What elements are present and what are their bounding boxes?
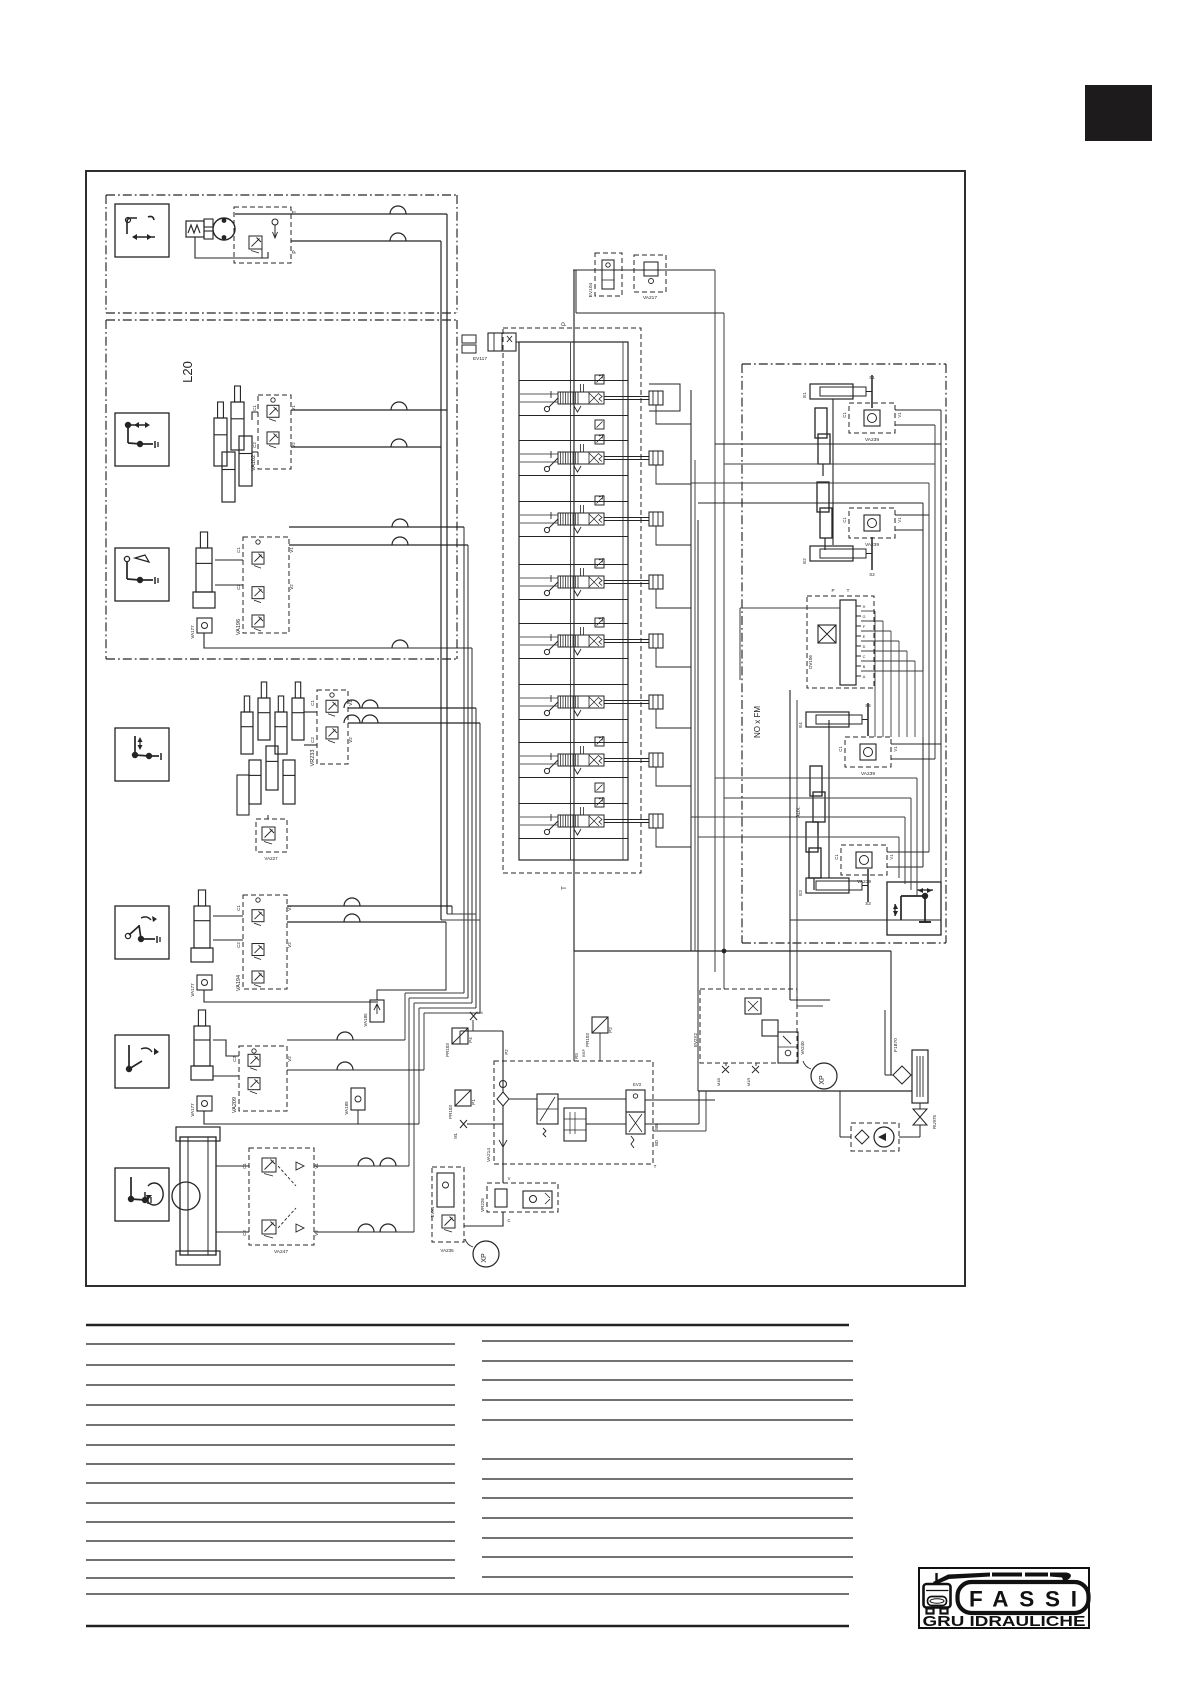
svg-text:EV117: EV117	[473, 356, 487, 362]
svg-text:EVX1: EVX1	[430, 1206, 435, 1217]
svg-text:E2: E2	[802, 558, 807, 564]
solenoid group VA235 EVX1	[432, 1167, 464, 1242]
svg-text:C1: C1	[842, 517, 847, 523]
parts table row rules left column	[86, 1343, 455, 1345]
function icon box 3	[115, 548, 169, 601]
svg-text:H: H	[863, 605, 866, 609]
svg-text:V1: V1	[897, 412, 902, 418]
right edge verticals stabiliser wires	[940, 410, 942, 744]
svg-text:M4: M4	[477, 1010, 483, 1015]
telescopic jack E1	[815, 408, 827, 438]
crane group dash-dot boundary L20	[106, 319, 457, 321]
VA214 outputs	[645, 1099, 715, 1101]
parts table bottom rule	[86, 1625, 849, 1628]
pressure gauge PR103 P1	[455, 1090, 471, 1106]
telescopic jack E2	[817, 482, 829, 512]
svg-text:VA196: VA196	[236, 619, 242, 635]
bank section 8 spool valve	[519, 803, 628, 805]
wire bundle left verticals from crane valves	[463, 527, 465, 993]
long wires bottom group to bundle	[715, 777, 917, 779]
svg-text:C2: C2	[236, 942, 241, 948]
svg-text:C1: C1	[838, 746, 843, 752]
svg-text:V1: V1	[289, 547, 294, 553]
svg-text:V2: V2	[348, 737, 353, 743]
valve VA240	[778, 1032, 798, 1063]
svg-text:L20: L20	[180, 361, 195, 383]
svg-text:V2: V2	[289, 584, 294, 590]
svg-text:V1: V1	[889, 854, 894, 860]
valve VA185 a	[370, 1000, 384, 1022]
function icon box 2	[115, 413, 169, 466]
cylinder C5 jib extension	[194, 1026, 210, 1066]
connector block DV106	[807, 596, 874, 688]
svg-text:C2: C2	[310, 737, 315, 743]
svg-text:V1: V1	[893, 746, 898, 752]
EV2X2 test ports	[722, 1066, 729, 1073]
wire bundle left verticals from pump	[446, 214, 448, 914]
valve VA177 jib ext	[197, 1096, 212, 1111]
svg-text:P4: P4	[468, 1037, 473, 1043]
junction dot	[722, 949, 726, 953]
svg-text:VA177: VA177	[190, 983, 195, 997]
parts table full width rule	[86, 1593, 849, 1595]
valve group VR233	[317, 690, 348, 764]
bank section 7 spool valve	[519, 742, 628, 744]
P gallery lines	[573, 270, 575, 951]
svg-text:T: T	[654, 1164, 657, 1169]
bottom group wire returns	[790, 919, 941, 921]
svg-text:V: V	[508, 1176, 511, 1181]
svg-text:VA177: VA177	[190, 625, 195, 639]
manifold line E3 group	[828, 720, 830, 878]
svg-text:VR226: VR226	[480, 1198, 485, 1212]
cylinder C4 jib boom	[194, 906, 210, 948]
svg-text:C2: C2	[232, 1056, 237, 1062]
svg-text:S3: S3	[865, 901, 871, 906]
svg-text:C1: C1	[236, 547, 241, 553]
pilot valve VA214 b	[564, 1108, 586, 1141]
svg-text:FASSI: FASSI	[969, 1587, 1077, 1612]
filter F1870	[893, 1066, 911, 1084]
svg-text:VA185: VA185	[363, 1013, 368, 1027]
valve group VA194	[243, 895, 287, 989]
svg-text:C: C	[863, 655, 866, 659]
svg-text:P: P	[562, 322, 568, 326]
pilot valve VA214 a	[537, 1094, 558, 1124]
supply riser into VA214	[502, 1031, 504, 1092]
pump suction loop	[195, 237, 268, 258]
svg-text:E: E	[863, 635, 866, 639]
gauge connection line	[459, 1031, 461, 1044]
bottom group verticals	[916, 778, 918, 896]
svg-text:NO x FM: NO x FM	[753, 706, 762, 738]
wires stabiliser bottom group	[891, 743, 941, 745]
svg-text:T: T	[847, 588, 850, 593]
cylinder pair C1 first boom	[214, 418, 227, 466]
bank section 2 spool valve	[519, 440, 628, 442]
svg-text:M1R: M1R	[746, 1078, 751, 1087]
valve group VA209	[239, 1046, 287, 1111]
svg-text:E3: E3	[798, 890, 803, 896]
svg-text:E1: E1	[802, 392, 807, 398]
svg-text:GRU IDRAULICHE: GRU IDRAULICHE	[923, 1613, 1086, 1630]
valve group VA196	[243, 537, 289, 633]
solenoid group EV2X2	[700, 989, 797, 1063]
svg-text:VA239: VA239	[861, 771, 875, 777]
hand pump valve group VR226	[487, 1183, 558, 1212]
pump P1 circle	[213, 218, 235, 240]
svg-text:C1: C1	[834, 854, 839, 860]
svg-text:D: D	[863, 645, 866, 649]
pressure gauge PR103 P4	[452, 1028, 468, 1044]
svg-text:P1: P1	[471, 1099, 476, 1105]
pump prime mover W	[186, 221, 204, 237]
valve VA217	[634, 255, 666, 292]
svg-text:C2: C2	[242, 1230, 247, 1236]
DV106 feed wires	[740, 607, 840, 609]
svg-text:C1: C1	[236, 905, 241, 911]
svg-text:PR103: PR103	[448, 1105, 453, 1119]
main control valve bank dashed boundary	[503, 328, 641, 873]
svg-text:VR233: VR233	[310, 750, 316, 767]
wires VA194 to bundle	[287, 905, 452, 907]
svg-text:RS: RS	[574, 1053, 579, 1059]
function icon box 1	[115, 204, 169, 257]
valve VA177 jib	[197, 975, 212, 990]
wires VA247 to jog bundle	[314, 1165, 409, 1167]
svg-text:S4: S4	[865, 703, 871, 708]
svg-text:XP: XP	[819, 1075, 826, 1085]
pilot wire upper to right bundle	[573, 269, 715, 271]
svg-text:B: B	[863, 665, 866, 669]
parts table row rules right column	[482, 1340, 853, 1342]
telescopic jack E3 aux	[806, 822, 818, 852]
schematic outer frame	[86, 171, 965, 1286]
valve VA177 boom2	[197, 618, 212, 633]
stabiliser S2 cylinder E2	[810, 546, 853, 561]
svg-text:BB: BB	[654, 1124, 659, 1130]
cylinder C2 second boom	[196, 548, 212, 592]
svg-text:VA194: VA194	[236, 975, 242, 991]
function icon box 5	[115, 906, 169, 959]
valve VA239 no2	[849, 508, 895, 538]
jog horizontals of left bundle	[447, 913, 476, 915]
svg-text:VA239: VA239	[865, 437, 879, 443]
bank section 6 spool valve	[519, 684, 628, 686]
svg-text:M1: M1	[453, 1132, 458, 1138]
valve VA185 b	[351, 1088, 365, 1110]
parts table top rule	[86, 1324, 849, 1327]
bank section 4 spool valve	[519, 564, 628, 566]
svg-text:EV2X2: EV2X2	[693, 1033, 698, 1048]
svg-text:EV104: EV104	[588, 282, 594, 297]
wires VR233 to bundle	[348, 707, 476, 709]
bank bottom exit	[574, 950, 891, 952]
svg-text:S1: S1	[869, 375, 875, 380]
XP circle upper	[811, 1063, 837, 1089]
EV117 unloading valve	[488, 333, 516, 351]
function icon box 4	[115, 728, 169, 781]
svg-text:VA214: VA214	[486, 1148, 492, 1162]
relief valve in pump group	[249, 236, 262, 249]
svg-text:VA235: VA235	[440, 1248, 454, 1253]
FASSI logo truck	[924, 1584, 951, 1614]
stabiliser zone dash-dot boundary	[742, 363, 946, 365]
wire bundle right of valve bank	[694, 460, 696, 951]
valve bank inner frame	[519, 342, 628, 860]
wires VA209 to jog bundle	[287, 1039, 405, 1041]
bank section 5 spool valve	[519, 623, 628, 625]
pump group dash-dot boundary	[106, 194, 457, 196]
DV106 fan-out wires	[861, 610, 875, 612]
svg-text:P2: P2	[504, 1049, 509, 1055]
svg-text:G: G	[863, 615, 866, 619]
svg-text:EV3: EV3	[633, 1082, 642, 1087]
aux pump dashed box	[851, 1123, 899, 1151]
pump relief group dashed box	[234, 207, 291, 263]
svg-text:VA239: VA239	[857, 879, 871, 885]
RS riser into VA214	[573, 951, 575, 1061]
svg-text:VA177: VA177	[190, 1103, 195, 1117]
bank section 1 stepped block	[649, 384, 680, 411]
check valve in VA214	[497, 1092, 509, 1106]
stabiliser S3 cylinder E3	[806, 878, 849, 893]
valve group VA247 crossover relief	[249, 1148, 314, 1245]
VA214 internal wires	[509, 1098, 537, 1100]
svg-text:P2: P2	[608, 1027, 613, 1033]
bank section 1 spool valve	[519, 380, 628, 382]
stabiliser S1 cylinder E1	[810, 384, 853, 399]
VA185a wire up	[377, 922, 446, 1000]
svg-text:PR103: PR103	[585, 1033, 590, 1047]
aux pump circle	[874, 1127, 894, 1147]
check valve in pump group	[272, 219, 278, 225]
svg-text:VA247: VA247	[274, 1249, 288, 1255]
svg-text:V2: V2	[314, 1230, 319, 1236]
right zone feed verticals	[789, 690, 791, 1000]
svg-text:C1: C1	[310, 700, 315, 706]
svg-text:A: A	[863, 675, 866, 679]
valve group VA102	[258, 395, 291, 469]
stabiliser S4 cylinder E4	[806, 712, 849, 727]
svg-text:C2: C2	[252, 442, 257, 448]
svg-text:BSF: BSF	[581, 1049, 586, 1057]
flow regulator group VA214 dashed box	[494, 1061, 653, 1164]
extension cylinders cluster	[241, 712, 253, 754]
valve VA227	[256, 819, 287, 852]
function icon box 6	[115, 1035, 169, 1088]
svg-text:BD: BD	[654, 1140, 659, 1146]
svg-text:T: T	[292, 210, 298, 213]
pilot wire lower to right bundle	[576, 312, 724, 314]
svg-text:C1: C1	[842, 412, 847, 418]
aux pump suction wire	[840, 1136, 851, 1138]
svg-text:T: T	[562, 886, 568, 890]
stabiliser icon box	[887, 882, 941, 935]
jog verticals descending to lower circuits	[404, 993, 406, 1040]
svg-text:M1B: M1B	[716, 1078, 721, 1087]
FASSI logo box	[919, 1568, 1089, 1628]
valve VA239 no1	[849, 403, 895, 433]
pressure gauge PR103 P2	[592, 1017, 608, 1033]
svg-text:VA185: VA185	[344, 1101, 349, 1115]
svg-text:S2: S2	[869, 572, 875, 577]
pump outlet wire T	[235, 213, 447, 215]
svg-text:C1: C1	[252, 405, 257, 411]
svg-text:P: P	[831, 588, 834, 593]
valve VA239 no4	[841, 845, 887, 875]
test point M1	[460, 1120, 467, 1128]
solenoid valve EV3	[626, 1090, 645, 1112]
svg-text:PR103: PR103	[445, 1043, 450, 1057]
wires stabiliser top group	[895, 409, 941, 411]
svg-text:VA240: VA240	[800, 1041, 805, 1055]
VR226 to VA235 wire	[464, 1212, 503, 1226]
long wires top group to bundle	[715, 443, 941, 445]
svg-text:F1870: F1870	[893, 1038, 899, 1052]
FASSI logo truck mast	[935, 1573, 937, 1585]
svg-text:VA227: VA227	[264, 856, 278, 861]
svg-text:VA239: VA239	[865, 542, 879, 548]
svg-text:VA217: VA217	[643, 295, 657, 301]
port collector vertical	[690, 390, 692, 951]
function icon box 7	[115, 1168, 169, 1221]
svg-text:E4: E4	[798, 722, 803, 728]
telescopic jack E4	[810, 766, 822, 796]
slewing actuator	[180, 1137, 216, 1255]
svg-text:C: C	[507, 1218, 510, 1223]
svg-text:DV106: DV106	[808, 655, 813, 669]
svg-text:V2: V2	[287, 1056, 292, 1062]
svg-text:V1: V1	[897, 517, 902, 523]
bank section 3 spool valve	[519, 501, 628, 503]
manifold line E1 group	[832, 399, 834, 545]
svg-text:VA209: VA209	[232, 1097, 238, 1113]
svg-text:V2: V2	[287, 942, 292, 948]
black corner marker	[1085, 85, 1152, 141]
solenoid valve EV104	[595, 253, 622, 296]
tank return valve RU975	[919, 1103, 921, 1109]
FASSI wordmark	[958, 1582, 1089, 1613]
wires VA102 to bundle	[291, 409, 447, 411]
XP circle lower	[473, 1241, 499, 1267]
svg-text:XP: XP	[481, 1253, 488, 1263]
pump outlet wire P	[291, 240, 441, 242]
slewing motor circle	[172, 1182, 200, 1210]
long return line to filter	[698, 1090, 912, 1092]
wires VA196 to bundle	[289, 526, 464, 528]
FASSI logo crane boom stripes	[933, 1573, 1071, 1586]
valve VA239 no3	[845, 737, 891, 767]
svg-text:RU975: RU975	[932, 1115, 937, 1130]
